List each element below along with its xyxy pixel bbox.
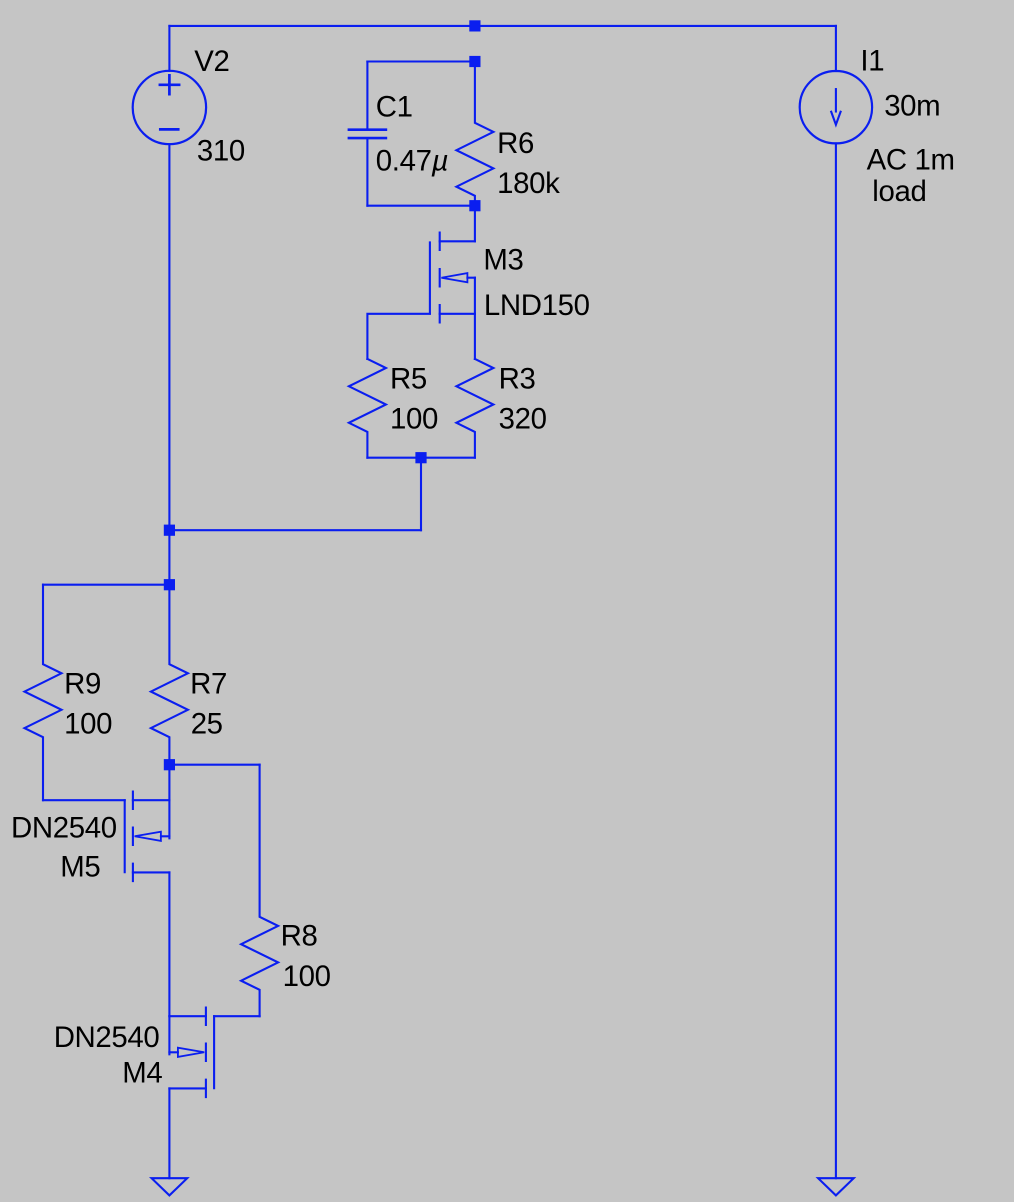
resistor R7 xyxy=(151,585,188,765)
svg-text:25: 25 xyxy=(191,708,223,741)
svg-text:I1: I1 xyxy=(860,44,884,77)
node junction C1 top xyxy=(469,56,480,67)
resistor R8 xyxy=(241,765,278,1017)
svg-text:0.47µ: 0.47µ xyxy=(376,145,448,178)
wire xyxy=(367,457,475,459)
svg-text:R9: R9 xyxy=(64,668,101,701)
resistor R6 xyxy=(456,62,493,206)
wire xyxy=(367,60,475,62)
svg-text:DN2540: DN2540 xyxy=(54,1021,160,1054)
svg-text:320: 320 xyxy=(499,402,547,435)
capacitor C1 xyxy=(349,62,386,206)
svg-text:M4: M4 xyxy=(122,1056,162,1089)
wire xyxy=(168,872,170,1016)
resistor R3 xyxy=(456,359,493,458)
svg-text:C1: C1 xyxy=(376,91,413,124)
ground left xyxy=(152,1178,188,1195)
ground right xyxy=(818,1178,854,1195)
svg-text:M5: M5 xyxy=(60,851,100,884)
wire xyxy=(169,764,259,766)
transistor M5 DN2540 xyxy=(125,765,170,881)
svg-text:100: 100 xyxy=(283,960,331,993)
resistor R5 xyxy=(349,359,386,458)
node junction V2 line xyxy=(164,525,175,536)
svg-text:LND150: LND150 xyxy=(484,289,590,322)
svg-text:AC 1m: AC 1m xyxy=(867,143,955,176)
svg-text:R7: R7 xyxy=(190,668,227,701)
wire xyxy=(169,529,421,531)
node junction R7 top xyxy=(164,579,175,590)
current source I1 xyxy=(800,71,872,143)
resistor R9 xyxy=(25,585,62,801)
wire M3 gate xyxy=(367,314,430,359)
svg-text:180k: 180k xyxy=(497,167,560,200)
transistor M3 LND150 xyxy=(430,206,475,359)
svg-text:R6: R6 xyxy=(497,127,534,160)
svg-text:M3: M3 xyxy=(483,244,523,277)
voltage source V2 xyxy=(133,71,206,144)
wire xyxy=(835,26,837,71)
svg-text:V2: V2 xyxy=(194,45,229,78)
transistor M4 DN2540 xyxy=(169,1008,214,1098)
svg-text:30m: 30m xyxy=(884,90,940,123)
wire xyxy=(420,458,422,531)
svg-text:100: 100 xyxy=(390,402,438,435)
node junction C1 bottom xyxy=(469,200,480,211)
svg-text:R8: R8 xyxy=(281,920,318,953)
svg-text:DN2540: DN2540 xyxy=(11,812,117,845)
svg-text:310: 310 xyxy=(197,134,245,167)
wire xyxy=(169,25,836,27)
wire xyxy=(168,26,170,71)
wire xyxy=(168,1088,170,1178)
node junction R5 R3 xyxy=(415,452,426,463)
wire xyxy=(367,205,475,207)
wire M5 gate xyxy=(43,799,125,801)
svg-text:R3: R3 xyxy=(499,362,536,395)
svg-text:load: load xyxy=(872,175,926,208)
wire xyxy=(43,584,169,586)
wire xyxy=(168,144,170,585)
node junction R7 bottom xyxy=(164,759,175,770)
wire M4 gate xyxy=(214,1015,260,1017)
svg-text:100: 100 xyxy=(64,708,112,741)
svg-text:R5: R5 xyxy=(390,362,427,395)
node junction top xyxy=(469,20,480,31)
wire xyxy=(835,143,837,1178)
